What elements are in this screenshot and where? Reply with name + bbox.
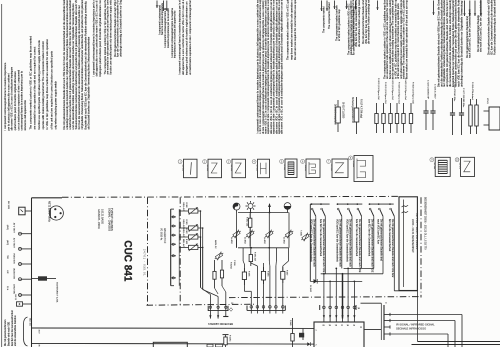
svg-text:The components marked: The components marked <box>322 6 325 33</box>
svg-text:R 903: R 903 <box>185 239 187 244</box>
svg-text:18: 18 <box>335 325 337 327</box>
svg-text:The components marked: The components marked <box>328 2 331 29</box>
svg-text:36 V: 36 V <box>38 330 40 335</box>
svg-text:BF 421: BF 421 <box>256 165 258 171</box>
svg-text:Die mit gekennzeichneten Baute: Die mit gekennzeichneten Bauteile sind n… <box>352 0 361 47</box>
svg-text:C 626 4700/40 Elko: C 626 4700/40 Elko <box>453 82 455 102</box>
svg-text:17: 17 <box>341 325 343 327</box>
svg-text:CINCH BU: CINCH BU <box>13 284 15 295</box>
svg-text:R 054 4k7: R 054 4k7 <box>254 252 256 262</box>
svg-text:R 057: R 057 <box>286 270 288 276</box>
svg-text:R 622 0,1W 5proz 1k2: R 622 0,1W 5proz 1k2 <box>391 78 394 101</box>
svg-text:1k 4052: 1k 4052 <box>283 237 285 244</box>
svg-text:Si 619 T1,6/250: Si 619 T1,6/250 <box>342 102 344 119</box>
svg-text:(AV2): (AV2) <box>6 240 9 245</box>
svg-text:I componenti contrassegnati ha: I componenti contrassegnati hanno la mas… <box>91 0 102 77</box>
svg-text:BU 1201: BU 1201 <box>7 201 9 210</box>
svg-text:Die mit gekennzeichneten Baute: Die mit gekennzeichneten Bauteile sindna… <box>466 9 472 58</box>
svg-text:1k 4052: 1k 4052 <box>230 237 232 244</box>
svg-text:Die mit gekennzeichneten Baute: Die mit gekennzeichneten Bauteile sind n… <box>62 0 90 130</box>
svg-text:29304 - 102.01 BEDIENEINHEIT: 29304 - 102.01 BEDIENEINHEIT <box>411 219 413 253</box>
svg-text:(AV1): (AV1) <box>6 225 9 230</box>
svg-text:TDA 81: TDA 81 <box>304 165 307 171</box>
svg-text:I componenti contrassegnati ha: I componenti contrassegnati hanno la mas… <box>171 7 177 58</box>
svg-text:R 652 0,1W 5proz 1k5: R 652 0,1W 5proz 1k5 <box>411 82 414 105</box>
svg-text:STANDBY DRUECKEN: STANDBY DRUECKEN <box>208 323 233 326</box>
svg-text:R 618 470k Anlauf: R 618 470k Anlauf <box>471 82 474 100</box>
svg-text:21: 21 <box>360 327 362 329</box>
svg-text:GRUNDPL. 29501: GRUNDPL. 29501 <box>97 209 100 229</box>
svg-text:1: 1 <box>316 330 317 332</box>
svg-text:24701 - 035.01: 24701 - 035.01 <box>143 249 147 276</box>
svg-text:BD 232: BD 232 <box>230 165 232 171</box>
svg-text:R 841: R 841 <box>289 320 291 326</box>
svg-text:R 612 0,1W 5proz 1k1: R 612 0,1W 5proz 1k1 <box>384 82 387 105</box>
svg-text:R 900: R 900 <box>185 203 187 208</box>
svg-text:L/R: L/R <box>6 270 8 274</box>
svg-text:R 052 10k: R 052 10k <box>246 217 248 226</box>
svg-text:Die mit gekennzeichneten Baute: Die mit gekennzeichneten Bauteile sind n… <box>114 0 123 57</box>
svg-text:102.21 BASIS: 102.21 BASIS <box>100 209 103 224</box>
svg-text:ABGL 52: ABGL 52 <box>214 240 217 249</box>
svg-text:R 901: R 901 <box>185 220 187 225</box>
svg-text:16: 16 <box>347 325 349 327</box>
svg-text:NETZ 220 V~ 50Hz: NETZ 220 V~ 50Hz <box>48 201 51 223</box>
svg-text:C 627 220/385 Elko: C 627 220/385 Elko <box>462 88 464 108</box>
svg-text:S 2000: S 2000 <box>352 161 354 167</box>
svg-text:R 2051: R 2051 <box>229 335 231 342</box>
svg-text:AV 2 TAST: AV 2 TAST <box>13 238 16 249</box>
svg-text:1k 4052: 1k 4052 <box>263 237 265 244</box>
svg-text:T 2050: T 2050 <box>300 230 302 236</box>
svg-text:VG 9910 4x: VG 9910 4x <box>160 228 162 241</box>
svg-text:15: 15 <box>353 325 355 327</box>
svg-text:The components marked conform: The components marked conform to VDE or … <box>382 0 408 79</box>
svg-text:AUDIO EIN: AUDIO EIN <box>13 268 16 279</box>
svg-text:75R: 75R <box>6 255 8 259</box>
svg-text:C 622 0,68/250 MP: C 622 0,68/250 MP <box>427 80 429 99</box>
svg-text:2: 2 <box>316 345 317 347</box>
svg-text:IR-SIGNAL / INFRARED SIGNAL: IR-SIGNAL / INFRARED SIGNAL <box>396 322 435 326</box>
svg-text:R 056: R 056 <box>267 271 269 277</box>
svg-text:R 632 0,1W 5proz 1k3: R 632 0,1W 5proz 1k3 <box>397 82 400 105</box>
svg-text:Drahtsicherung 1,6A: Drahtsicherung 1,6A <box>334 104 337 125</box>
svg-text:Die mit gekennzeichneten Baute: Die mit gekennzeichneten Bauteile sind n… <box>335 219 341 267</box>
svg-text:I componenti contrassegnati ha: I componenti contrassegnati hanno la mas… <box>178 0 192 75</box>
svg-text:Die mit gekennzeichneten Baute: Die mit gekennzeichneten Bauteile sind n… <box>487 0 496 55</box>
svg-text:BY 228: BY 228 <box>330 165 332 171</box>
svg-text:BD 678: BD 678 <box>459 163 461 169</box>
svg-text:The components marked conform: The components marked conform to VDE or … <box>285 0 297 60</box>
svg-text:HELL 4k7: HELL 4k7 <box>182 220 184 228</box>
svg-text:I componenti contrassegnati ha: I componenti contrassegnati hanno la mas… <box>255 0 283 134</box>
svg-text:CUC 841: CUC 841 <box>122 240 134 281</box>
svg-text:BU 12: BU 12 <box>14 295 16 301</box>
svg-text:I componenti contrassegnati ha: I componenti contrassegnati hanno lamass… <box>164 8 170 48</box>
svg-text:HELL 4k7: HELL 4k7 <box>182 229 184 237</box>
svg-text:Die mit gekennzeichneten Baute: Die mit gekennzeichneten Bauteile sind n… <box>346 219 352 267</box>
svg-text:I componenti contrassegnati ha: I componenti contrassegnati hanno la mas… <box>3 62 27 130</box>
svg-text:BC 338: BC 338 <box>206 165 208 171</box>
svg-text:BU 508: BU 508 <box>182 165 184 171</box>
svg-text:GLK 101: GLK 101 <box>29 318 31 327</box>
svg-text:HELL 4k7: HELL 4k7 <box>182 239 184 247</box>
svg-text:R 8264: R 8264 <box>230 262 232 270</box>
svg-text:The components marked conformt: The components marked conformto VDE or I… <box>335 5 341 41</box>
svg-text:R 617 4,7 5W abgl: R 617 4,7 5W abgl <box>360 99 362 119</box>
svg-text:ABGLEICH UF: ABGLEICH UF <box>163 228 166 244</box>
svg-text:SI 2040: SI 2040 <box>309 285 311 293</box>
svg-text:C 623 2x 250V: C 623 2x 250V <box>434 84 436 99</box>
svg-text:VIDEO EIN: VIDEO EIN <box>13 253 15 264</box>
svg-text:HELL 4k7: HELL 4k7 <box>182 203 184 211</box>
svg-text:19: 19 <box>329 325 331 327</box>
svg-text:R 602 0,1W 5proz 1k0: R 602 0,1W 5proz 1k0 <box>377 78 380 101</box>
svg-text:1k 4052: 1k 4052 <box>244 237 246 244</box>
svg-text:Die mit gekennzeichneten Baute: Die mit gekennzeichneten Bauteile sind n… <box>362 0 371 44</box>
svg-text:C 836: C 836 <box>233 260 235 266</box>
svg-text:The components marked conform: The components marked conform to VDE or … <box>104 0 113 75</box>
svg-text:Sicherungswiderstand 33: Sicherungswiderstand 33 <box>351 97 354 124</box>
svg-text:IC 631: IC 631 <box>283 165 285 171</box>
svg-text:SEGNALE INFRAROSSO: SEGNALE INFRAROSSO <box>396 326 426 330</box>
svg-text:BC 548: BC 548 <box>433 163 435 169</box>
svg-text:R 055: R 055 <box>248 271 250 277</box>
svg-text:Die mit gekennzeichneten Baute: Die mit gekennzeichneten Bauteile sind n… <box>437 0 464 87</box>
svg-text:R 902: R 902 <box>185 229 187 234</box>
svg-text:R 642 0,1W 5proz 1k4: R 642 0,1W 5proz 1k4 <box>404 78 407 101</box>
svg-text:AV 1 TAST: AV 1 TAST <box>13 223 16 234</box>
svg-text:TV/TEXT CHASSIS: TV/TEXT CHASSIS <box>110 208 114 231</box>
svg-text:20: 20 <box>322 325 324 327</box>
svg-text:53 770 - OLL. LS 29304: 53 770 - OLL. LS 29304 <box>415 213 419 250</box>
svg-text:SICHERUNG T 1,25A: SICHERUNG T 1,25A <box>56 282 59 303</box>
svg-text:BEDIENEINHEIT 29301 - 102.21 O: BEDIENEINHEIT 29301 - 102.21 OLL. LS 53 … <box>424 197 427 250</box>
svg-text:NT 41: NT 41 <box>486 98 488 104</box>
